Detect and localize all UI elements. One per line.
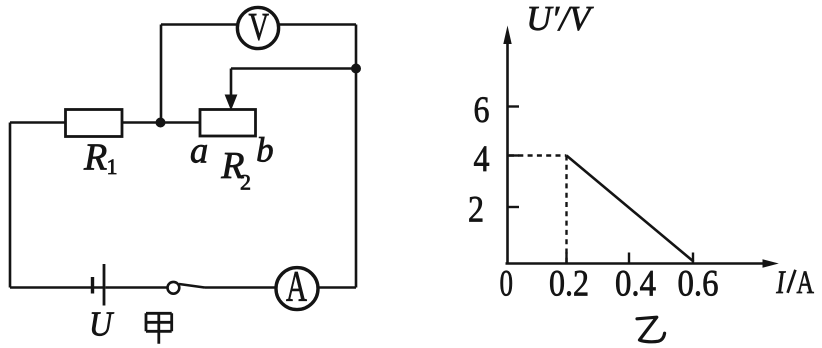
svg-text:0.6: 0.6 <box>678 264 719 305</box>
svg-text:a: a <box>190 129 208 170</box>
wire right vertical <box>355 25 358 288</box>
svg-text:R: R <box>83 137 107 179</box>
x tick 0.4 <box>628 253 630 264</box>
switch pivot circle <box>168 282 180 294</box>
svg-text:2: 2 <box>240 170 251 195</box>
label jia (Chinese) drawn <box>146 313 172 344</box>
svg-text:1: 1 <box>107 154 118 179</box>
svg-text:I: I <box>776 265 787 301</box>
axis title I/A slash <box>788 270 796 293</box>
switch lever <box>179 284 205 288</box>
wire bottom row <box>10 286 104 289</box>
wire top (voltmeter row) <box>161 23 356 26</box>
y tick 4 <box>508 154 520 156</box>
label yi (Chinese) drawn <box>637 317 665 342</box>
node junction dot right <box>351 64 361 74</box>
ammeter circle <box>276 268 318 310</box>
resistor R1 <box>66 110 123 137</box>
wire switch to ammeter to right vertical <box>205 286 357 289</box>
wire voltmeter left branch down to node <box>160 25 163 123</box>
svg-text:b: b <box>256 130 274 169</box>
rheostat R2 <box>200 110 256 137</box>
svg-text:2: 2 <box>468 190 484 231</box>
x tick 0.2 <box>565 253 567 264</box>
node junction dot left <box>156 118 166 128</box>
wire slider drop <box>230 69 233 98</box>
wire battery to switch <box>106 286 168 289</box>
voltmeter U1 circle <box>237 7 278 48</box>
wire slider feed horizontal <box>231 67 356 70</box>
graph y-axis arrowhead <box>503 26 511 45</box>
graph y-axis <box>506 44 509 264</box>
svg-text:0.2: 0.2 <box>549 264 589 305</box>
battery plate long <box>103 264 106 306</box>
slider arrowhead <box>225 95 238 111</box>
dashed guide vertical at 0.2 <box>565 156 567 264</box>
svg-text:6: 6 <box>474 90 490 131</box>
x tick 0.6 <box>692 253 694 264</box>
graph x-axis arrowhead <box>763 259 779 267</box>
dashed guide horizontal at 4 <box>509 154 567 156</box>
svg-text:A: A <box>286 264 307 311</box>
graph x-axis <box>506 262 765 265</box>
svg-text:0: 0 <box>500 264 514 305</box>
svg-text:A: A <box>797 265 815 301</box>
svg-text:0.4: 0.4 <box>615 264 656 305</box>
svg-text:4: 4 <box>474 139 490 180</box>
wire left horizontal into R1 <box>10 121 66 124</box>
wire left vertical <box>9 123 12 288</box>
wire R1 to R2 through node <box>122 121 200 124</box>
y tick 6 <box>508 105 520 107</box>
battery plate short <box>91 277 94 294</box>
y tick 2 <box>508 206 520 208</box>
graph data line <box>567 156 694 262</box>
svg-text:V: V <box>249 6 270 49</box>
svg-text:U: U <box>89 304 115 343</box>
svg-text:U′/V: U′/V <box>526 0 594 38</box>
